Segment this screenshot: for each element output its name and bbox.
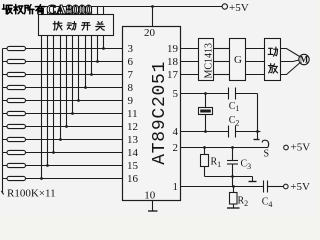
- svg-text:15: 15: [127, 160, 139, 172]
- resistor R (row 1): [7, 46, 26, 50]
- wire G to amp row 1: [246, 48, 265, 50]
- junction node wire7-row5: [77, 99, 80, 102]
- wire switch stub 6: [72, 7, 74, 15]
- wire C3 top lead: [232, 148, 234, 161]
- junction node wire3-row9: [52, 151, 55, 154]
- capacitor C3: [227, 161, 238, 165]
- svg-text:14: 14: [127, 147, 139, 159]
- pin number 5 (right): [173, 88, 179, 100]
- wire pin 19 to MC1413: [181, 48, 199, 50]
- svg-text:5: 5: [173, 88, 179, 100]
- svg-text:R100K×11: R100K×11: [7, 187, 56, 199]
- svg-text:S: S: [264, 149, 270, 160]
- wire switch stub 11: [103, 7, 105, 15]
- resistor R (row 10): [7, 163, 26, 167]
- wire C1 right: [236, 93, 258, 95]
- resistor R (row 4): [7, 85, 26, 89]
- svg-text:4: 4: [173, 126, 179, 138]
- wire row 3 (to pin 7): [3, 74, 123, 76]
- pin number 1 (right): [173, 181, 179, 193]
- pin number 18 (right): [167, 56, 179, 68]
- wire G to amp row 2: [246, 61, 265, 63]
- svg-text:3: 3: [247, 162, 251, 171]
- label R2: [238, 196, 249, 208]
- junction node wire6-row6: [71, 112, 74, 115]
- wire crystal bottom lead: [205, 115, 207, 132]
- wire row 9 (to pin 14): [3, 152, 123, 154]
- svg-text:12: 12: [127, 121, 138, 133]
- wire amp to motor middle: [281, 60, 299, 62]
- wire switch column 10: [97, 36, 99, 62]
- wire R1 top lead: [204, 148, 206, 155]
- pin number 4 (right): [173, 126, 179, 138]
- svg-text:2: 2: [173, 142, 179, 154]
- wire pin 4 row: [181, 131, 229, 133]
- svg-text:6: 6: [128, 56, 134, 68]
- label gate G: [234, 54, 242, 66]
- capacitor C1: [229, 88, 236, 100]
- driver U2 MC1413 body: [199, 39, 214, 81]
- resistor R (row 3): [7, 72, 26, 76]
- wire pin 18 to MC1413: [181, 61, 199, 63]
- pin number 9 (left): [128, 95, 134, 107]
- wire switch stub 4: [60, 7, 62, 15]
- wire switch column 8: [85, 36, 87, 88]
- wire pin 1 row: [181, 186, 264, 188]
- wire pin 20 to +5V bus: [152, 7, 154, 27]
- label +5V (top): [229, 2, 249, 14]
- terminal +5V (top): [222, 4, 227, 9]
- wire pin 10 ground lead: [152, 201, 154, 211]
- junction node C2/gnd vertical: [256, 130, 259, 133]
- ground (R1/C3): [249, 181, 257, 183]
- wire row 6 (to pin 11): [3, 113, 123, 115]
- wire switch column 11: [103, 36, 105, 49]
- svg-text:8: 8: [128, 82, 134, 94]
- svg-text:CA8000: CA8000: [47, 2, 93, 17]
- switch S lever: [262, 140, 268, 147]
- wire switch column 1: [41, 36, 43, 179]
- junction node crystal top: [204, 92, 207, 95]
- svg-text:16: 16: [127, 173, 139, 185]
- wire row 11 (to pin 16): [3, 178, 123, 180]
- wire C1/C2 common vertical: [257, 94, 259, 140]
- ground (C1/C2): [254, 139, 260, 141]
- junction node wire5-row7: [65, 125, 68, 128]
- gate G body: [230, 39, 246, 81]
- svg-text:G: G: [234, 54, 242, 66]
- pin number 20: [144, 27, 156, 39]
- svg-text:2: 2: [235, 119, 239, 128]
- label U1 AT89C2051: [150, 61, 170, 165]
- svg-text:1: 1: [217, 160, 221, 169]
- pin number 2 (right): [173, 142, 179, 154]
- wire switch column 7: [78, 36, 80, 101]
- pin number 11 (left): [127, 108, 138, 120]
- svg-text:20: 20: [144, 27, 156, 39]
- wire R2 bottom lead: [233, 204, 235, 208]
- junction node R2 top: [232, 185, 235, 188]
- watermark CA8000: [47, 2, 93, 17]
- resistor R (row 9): [7, 150, 26, 154]
- wire switch stub 9: [91, 7, 93, 15]
- wire crystal top lead: [205, 94, 207, 108]
- junction node link/C3: [231, 175, 234, 178]
- svg-text:11: 11: [127, 108, 138, 120]
- wire MC1413 to G row 3: [214, 74, 230, 76]
- pin number 10: [144, 189, 156, 201]
- ground (R2): [227, 207, 240, 209]
- svg-text:+5V: +5V: [229, 2, 249, 14]
- wire C3 bottom lead: [232, 164, 234, 187]
- wire C4 right: [268, 186, 284, 188]
- pin number 12 (left): [127, 121, 138, 133]
- label +5V (switch): [291, 142, 311, 154]
- junction node R1 top: [203, 146, 206, 149]
- wire R2 top lead: [233, 187, 235, 193]
- label 拨动开关 (switch box): [53, 21, 104, 30]
- svg-text:+5V: +5V: [291, 142, 311, 154]
- label R1: [211, 157, 222, 169]
- svg-text:13: 13: [127, 134, 139, 146]
- wire row 1 (to pin 3): [3, 48, 123, 50]
- junction node wire10-row2: [96, 60, 99, 63]
- resistor R2: [230, 193, 238, 205]
- resistor R1: [201, 155, 209, 167]
- svg-text:1: 1: [235, 104, 239, 113]
- ground (pin 10): [148, 210, 158, 212]
- svg-text:M: M: [300, 55, 309, 65]
- wire amp to motor bottom: [281, 63, 300, 75]
- pin number 6 (left): [128, 56, 134, 68]
- junction node crystal bottom: [204, 130, 207, 133]
- wire switch column 6: [72, 36, 74, 114]
- pin number 8 (left): [128, 82, 134, 94]
- junction node wire1-row11: [40, 177, 43, 180]
- wire pin 2 row: [181, 147, 269, 149]
- pin number 7 (left): [128, 69, 134, 81]
- wire row 10 (to pin 15): [3, 165, 123, 167]
- wire switch stub 5: [66, 7, 68, 15]
- svg-text:19: 19: [167, 43, 179, 55]
- watermark 版权所有: [2, 4, 44, 14]
- svg-text:4: 4: [268, 200, 272, 209]
- svg-text:+5V: +5V: [290, 181, 310, 193]
- label C1: [229, 101, 240, 113]
- pin number 17 (right): [167, 69, 179, 81]
- amplifier AMP body: [265, 39, 281, 81]
- switch box SW (toggle switch bank): [39, 15, 114, 36]
- wire MC1413 to G row 1: [214, 48, 230, 50]
- label 功放 (amplifier): [268, 47, 277, 73]
- wire switch column 5: [66, 36, 68, 127]
- resistor R (row 6): [7, 111, 26, 115]
- svg-text:9: 9: [128, 95, 134, 107]
- capacitor C4: [264, 181, 268, 193]
- wire G to amp row 3: [246, 74, 265, 76]
- svg-text:1: 1: [173, 181, 179, 193]
- label C2: [229, 115, 240, 127]
- op-amp U1 AT89C2051 body: [123, 27, 181, 201]
- resistor R (row 11): [7, 176, 26, 180]
- wire row 2 (to pin 6): [3, 61, 123, 63]
- wire row 5 (to pin 9): [3, 100, 123, 102]
- pin number 19 (right): [167, 43, 179, 55]
- wire pin 5 row: [181, 93, 229, 95]
- junction node wire8-row4: [84, 86, 87, 89]
- wire R1/C3 bottom link: [205, 176, 253, 178]
- capacitor C2: [229, 126, 236, 138]
- pin number 14 (left): [127, 147, 139, 159]
- wire row 4 (to pin 8): [3, 87, 123, 89]
- wire row 8 (to pin 13): [3, 139, 123, 141]
- wire switch stub 8: [85, 7, 87, 15]
- motor M body: [299, 54, 309, 64]
- pin number 15 (left): [127, 160, 139, 172]
- junction node wire2-row10: [46, 164, 49, 167]
- wire switch stub 7: [78, 7, 80, 15]
- junction node wire11-row1: [102, 47, 105, 50]
- wire switch stub 1: [41, 7, 43, 15]
- label switch S: [264, 149, 270, 160]
- terminal +5V (C4): [284, 184, 289, 189]
- wire R1 bottom lead: [204, 167, 206, 177]
- junction node C3 top: [231, 146, 234, 149]
- pin number 13 (left): [127, 134, 139, 146]
- wire row 7 (to pin 12): [3, 126, 123, 128]
- label C3: [241, 159, 252, 171]
- svg-text:3: 3: [128, 43, 134, 55]
- terminal +5V (switch): [284, 145, 289, 150]
- wire switch column 9: [91, 36, 93, 75]
- wire switch column 3: [53, 36, 55, 153]
- svg-text:MC1413: MC1413: [204, 43, 215, 79]
- svg-text:2: 2: [244, 199, 248, 208]
- resistor R (row 5): [7, 98, 26, 102]
- svg-text:AT89C2051: AT89C2051: [150, 61, 170, 165]
- wire link to ground: [252, 177, 254, 182]
- label U2 MC1413: [204, 43, 215, 79]
- wire amp to motor top: [281, 49, 300, 57]
- label motor M: [300, 55, 309, 65]
- wire C2 right: [236, 131, 261, 133]
- wire switch column 4: [60, 36, 62, 140]
- wire switch column 2: [47, 36, 49, 166]
- wire pin 17 to MC1413: [181, 74, 199, 76]
- crystal Y1: [199, 108, 213, 115]
- wire left bus: [1, 49, 3, 195]
- junction node wire9-row3: [90, 73, 93, 76]
- wire +5V top bus: [41, 6, 223, 8]
- label R100K x11: [7, 187, 56, 199]
- junction node wire4-row8: [59, 138, 62, 141]
- resistor R (row 7): [7, 124, 26, 128]
- wire switch stub 10: [97, 7, 99, 15]
- wire switch stub 2: [47, 7, 49, 15]
- junction node pin20/bus: [151, 5, 154, 8]
- resistor R (row 2): [7, 59, 26, 63]
- pin number 16 (left): [127, 173, 139, 185]
- svg-text:7: 7: [128, 69, 134, 81]
- pin number 3 (left): [128, 43, 134, 55]
- wire MC1413 to G row 2: [214, 61, 230, 63]
- label +5V (C4): [290, 181, 310, 193]
- wire switch stub 3: [53, 7, 55, 15]
- label C4: [262, 197, 273, 209]
- resistor R (row 8): [7, 137, 26, 141]
- svg-text:10: 10: [144, 189, 156, 201]
